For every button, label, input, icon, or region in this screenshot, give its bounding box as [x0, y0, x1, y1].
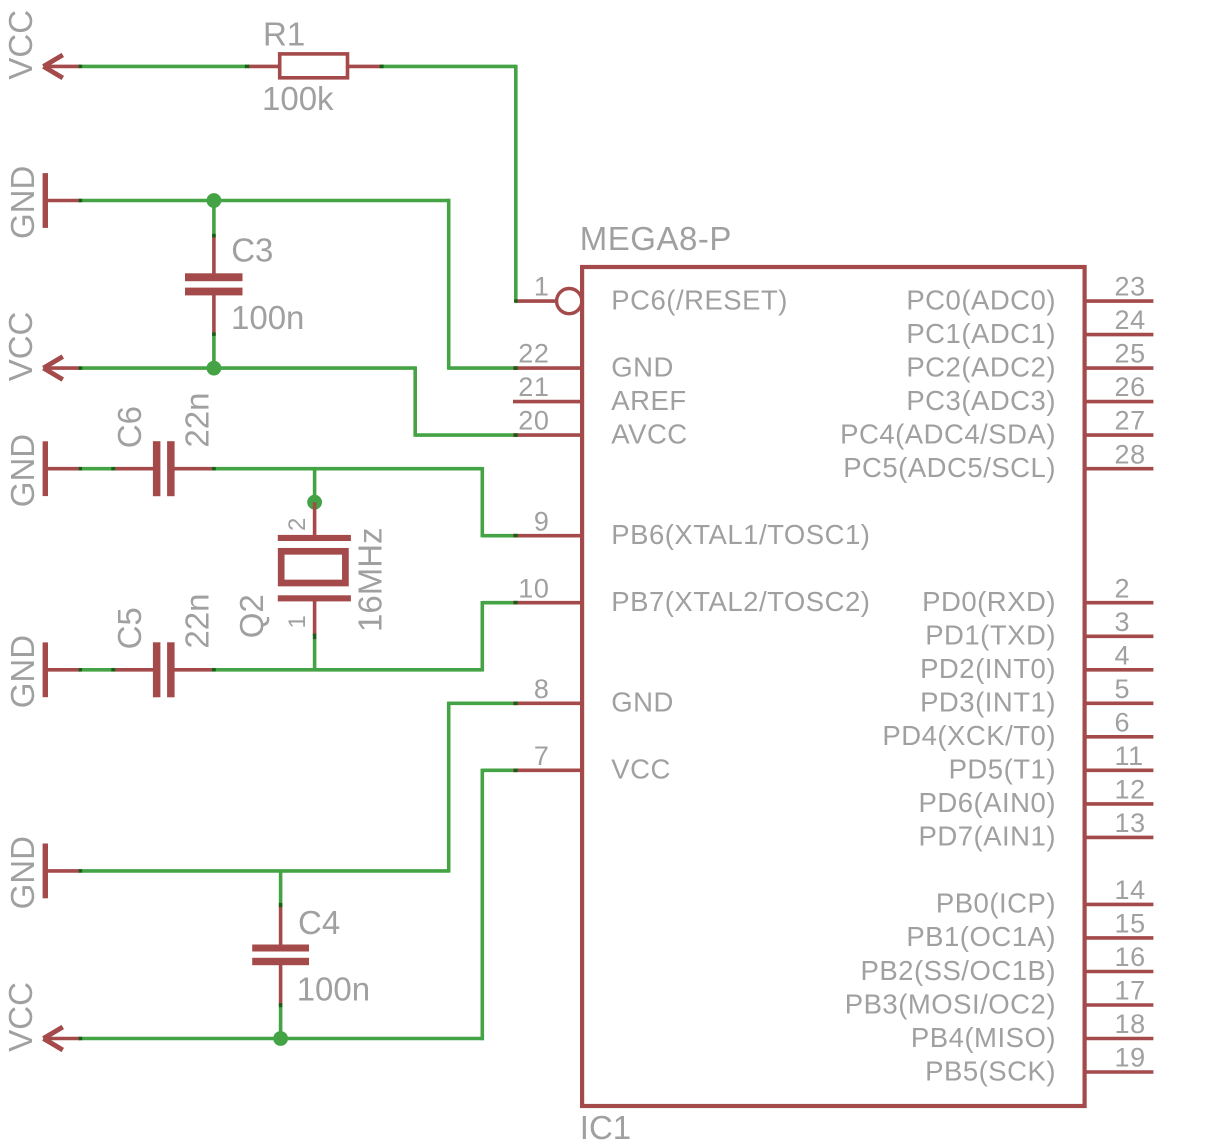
- svg-text:IC1: IC1: [580, 1109, 631, 1146]
- svg-text:9: 9: [534, 506, 550, 536]
- svg-text:C5: C5: [111, 607, 148, 649]
- svg-text:VCC: VCC: [2, 982, 39, 1052]
- svg-text:PB3(MOSI/OC2): PB3(MOSI/OC2): [845, 988, 1056, 1019]
- svg-text:16: 16: [1115, 942, 1146, 972]
- svg-text:100n: 100n: [231, 299, 304, 336]
- svg-text:1: 1: [534, 272, 550, 302]
- svg-text:PD7(AIN1): PD7(AIN1): [919, 821, 1056, 852]
- svg-text:C4: C4: [298, 904, 340, 941]
- svg-text:13: 13: [1115, 808, 1146, 838]
- svg-text:MEGA8-P: MEGA8-P: [580, 220, 732, 257]
- svg-text:PB7(XTAL2/TOSC2): PB7(XTAL2/TOSC2): [611, 586, 870, 617]
- svg-text:PD3(INT1): PD3(INT1): [920, 687, 1056, 718]
- svg-text:PC5(ADC5/SCL): PC5(ADC5/SCL): [843, 452, 1056, 483]
- svg-text:GND: GND: [4, 635, 41, 708]
- svg-text:15: 15: [1115, 909, 1146, 939]
- svg-text:3: 3: [1115, 607, 1131, 637]
- svg-text:28: 28: [1115, 439, 1146, 469]
- svg-text:PB6(XTAL1/TOSC1): PB6(XTAL1/TOSC1): [611, 519, 870, 550]
- svg-text:100k: 100k: [262, 80, 334, 117]
- svg-text:Q2: Q2: [233, 594, 270, 638]
- svg-text:PC4(ADC4/SDA): PC4(ADC4/SDA): [840, 418, 1056, 449]
- svg-text:100n: 100n: [297, 970, 370, 1007]
- svg-text:2: 2: [284, 518, 311, 531]
- svg-text:7: 7: [534, 741, 550, 771]
- svg-text:C3: C3: [231, 232, 273, 269]
- svg-text:27: 27: [1115, 406, 1146, 436]
- svg-text:PC6(/RESET): PC6(/RESET): [611, 284, 788, 315]
- svg-text:PD5(T1): PD5(T1): [949, 754, 1056, 785]
- svg-text:25: 25: [1115, 339, 1146, 369]
- svg-text:PD1(TXD): PD1(TXD): [925, 620, 1056, 651]
- svg-text:PB1(OC1A): PB1(OC1A): [906, 921, 1056, 952]
- svg-text:23: 23: [1115, 272, 1146, 302]
- svg-text:1: 1: [284, 615, 311, 628]
- svg-text:22n: 22n: [179, 393, 216, 448]
- svg-text:4: 4: [1115, 640, 1131, 670]
- svg-text:PD0(RXD): PD0(RXD): [922, 586, 1056, 617]
- svg-text:VCC: VCC: [2, 312, 39, 382]
- svg-text:5: 5: [1115, 674, 1131, 704]
- svg-text:6: 6: [1115, 707, 1131, 737]
- svg-text:AVCC: AVCC: [611, 418, 687, 449]
- svg-text:PC2(ADC2): PC2(ADC2): [906, 351, 1056, 382]
- svg-text:2: 2: [1115, 573, 1131, 603]
- svg-text:GND: GND: [611, 351, 674, 382]
- svg-text:22n: 22n: [179, 594, 216, 649]
- svg-text:GND: GND: [4, 836, 41, 909]
- svg-text:PD2(INT0): PD2(INT0): [920, 653, 1056, 684]
- svg-text:PB4(MISO): PB4(MISO): [911, 1022, 1056, 1053]
- svg-text:18: 18: [1115, 1009, 1146, 1039]
- svg-text:PB2(SS/OC1B): PB2(SS/OC1B): [860, 955, 1056, 986]
- svg-text:8: 8: [534, 674, 550, 704]
- svg-text:PD4(XCK/T0): PD4(XCK/T0): [882, 720, 1056, 751]
- svg-text:24: 24: [1115, 305, 1146, 335]
- svg-text:PC3(ADC3): PC3(ADC3): [906, 385, 1056, 416]
- svg-text:26: 26: [1115, 372, 1146, 402]
- svg-text:VCC: VCC: [2, 10, 39, 80]
- svg-text:C6: C6: [111, 406, 148, 448]
- svg-text:19: 19: [1115, 1043, 1146, 1073]
- svg-text:20: 20: [518, 406, 549, 436]
- svg-text:16MHz: 16MHz: [352, 527, 389, 632]
- svg-text:10: 10: [518, 573, 549, 603]
- svg-text:AREF: AREF: [611, 385, 686, 416]
- svg-text:14: 14: [1115, 875, 1146, 905]
- svg-text:11: 11: [1115, 741, 1144, 771]
- svg-text:PC0(ADC0): PC0(ADC0): [906, 284, 1056, 315]
- svg-text:GND: GND: [4, 434, 41, 507]
- svg-text:PD6(AIN0): PD6(AIN0): [919, 787, 1056, 818]
- svg-text:PB0(ICP): PB0(ICP): [936, 888, 1056, 919]
- svg-text:GND: GND: [4, 166, 41, 239]
- svg-text:PC1(ADC1): PC1(ADC1): [906, 318, 1056, 349]
- svg-text:22: 22: [518, 339, 549, 369]
- svg-text:VCC: VCC: [611, 754, 671, 785]
- svg-text:21: 21: [518, 372, 549, 402]
- svg-text:12: 12: [1115, 775, 1146, 805]
- svg-text:17: 17: [1115, 976, 1146, 1006]
- svg-text:PB5(SCK): PB5(SCK): [925, 1055, 1056, 1086]
- svg-text:GND: GND: [611, 687, 674, 718]
- svg-text:R1: R1: [263, 16, 305, 53]
